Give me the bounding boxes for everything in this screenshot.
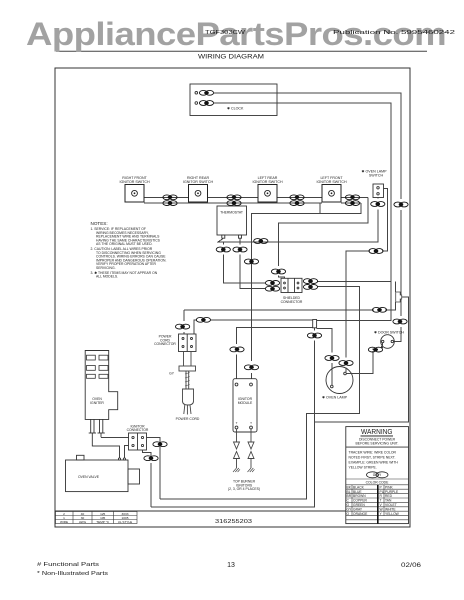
svg-text:IGNITOR SWITCH: IGNITOR SWITCH bbox=[316, 180, 346, 184]
svg-text:NOTED FIRST, STRIPE NEXT.: NOTED FIRST, STRIPE NEXT. bbox=[349, 456, 396, 460]
svg-text:CONNECTOR: CONNECTOR bbox=[154, 342, 176, 346]
svg-text:BROWN: BROWN bbox=[353, 494, 366, 498]
svg-text:COPPER: COPPER bbox=[353, 499, 368, 503]
svg-text:TGF303CW: TGF303CW bbox=[205, 30, 246, 36]
svg-text:PINK: PINK bbox=[385, 485, 393, 489]
svg-text:PURPLE: PURPLE bbox=[385, 490, 399, 494]
svg-text:UL STYLE: UL STYLE bbox=[118, 520, 133, 524]
svg-text:316255203: 316255203 bbox=[215, 519, 252, 525]
svg-text:BLUE: BLUE bbox=[353, 490, 362, 494]
svg-text:GRAY: GRAY bbox=[353, 507, 363, 511]
svg-text:# Functional Parts: # Functional Parts bbox=[37, 562, 99, 568]
svg-text:* Non-Illustrated Parts: * Non-Illustrated Parts bbox=[37, 571, 108, 577]
svg-text:YELLOW: YELLOW bbox=[385, 512, 400, 516]
svg-text:BR: BR bbox=[347, 494, 352, 498]
svg-text:RED: RED bbox=[385, 494, 393, 498]
svg-text:POWER CORD: POWER CORD bbox=[176, 417, 200, 421]
svg-text:WHITE: WHITE bbox=[385, 507, 396, 511]
svg-text:(2, 3, OR 4 PLACES): (2, 3, OR 4 PLACES) bbox=[228, 487, 260, 491]
svg-text:VIOLET: VIOLET bbox=[385, 503, 397, 507]
svg-text:T: T bbox=[236, 421, 238, 425]
svg-text:GREEN: GREEN bbox=[353, 503, 365, 507]
svg-text:SWITCH: SWITCH bbox=[369, 174, 384, 178]
svg-text:WIRE: WIRE bbox=[60, 520, 68, 524]
svg-text:IGNITER: IGNITER bbox=[90, 401, 104, 405]
svg-text:BEFORE SERVICING UNIT.: BEFORE SERVICING UNIT. bbox=[356, 441, 399, 445]
svg-text:✱ DOOR SWITCH: ✱ DOOR SWITCH bbox=[374, 331, 404, 335]
svg-text:TRACER WIRE: WIRE COLOR: TRACER WIRE: WIRE COLOR bbox=[349, 451, 397, 455]
svg-text:IGNITOR SWITCH: IGNITOR SWITCH bbox=[252, 180, 282, 184]
svg-text:ALL MODELS.: ALL MODELS. bbox=[96, 275, 118, 279]
svg-text:GR-Y: GR-Y bbox=[373, 473, 382, 477]
svg-text:WARNING: WARNING bbox=[361, 427, 393, 436]
svg-text:T: T bbox=[380, 499, 382, 503]
svg-text:OVEN VALVE: OVEN VALVE bbox=[78, 475, 100, 479]
svg-text:GY: GY bbox=[169, 372, 175, 376]
svg-text:NOTES:: NOTES: bbox=[91, 221, 108, 226]
svg-text:✱ CLOCK: ✱ CLOCK bbox=[227, 107, 244, 111]
svg-text:T: T bbox=[250, 421, 252, 425]
svg-text:ORANGE: ORANGE bbox=[353, 512, 368, 516]
svg-text:CONNECTOR: CONNECTOR bbox=[281, 300, 303, 304]
svg-text:BL: BL bbox=[347, 490, 351, 494]
svg-text:WIRING DIAGRAM: WIRING DIAGRAM bbox=[198, 54, 264, 61]
svg-text:TAN: TAN bbox=[385, 499, 392, 503]
svg-text:G: G bbox=[347, 503, 350, 507]
svg-text:TEMP °C: TEMP °C bbox=[96, 520, 110, 524]
svg-text:Publication No. 5995460242: Publication No. 5995460242 bbox=[333, 30, 455, 36]
svg-text:CONNECTOR: CONNECTOR bbox=[127, 428, 149, 432]
svg-text:BLACK: BLACK bbox=[353, 485, 365, 489]
svg-text:IGNITOR SWITCH: IGNITOR SWITCH bbox=[183, 180, 213, 184]
svg-text:IGNITOR SWITCH: IGNITOR SWITCH bbox=[119, 180, 149, 184]
svg-text:MODULE: MODULE bbox=[238, 401, 253, 405]
svg-text:AWG: AWG bbox=[79, 520, 87, 524]
svg-text:COLOR CODE: COLOR CODE bbox=[366, 481, 390, 485]
svg-text:SERVICING.: SERVICING. bbox=[96, 266, 116, 270]
svg-text:THERMOSTAT: THERMOSTAT bbox=[220, 211, 243, 215]
svg-text:YELLOW STRIPE.: YELLOW STRIPE. bbox=[349, 465, 377, 469]
svg-text:PU: PU bbox=[380, 490, 385, 494]
svg-text:02/06: 02/06 bbox=[401, 562, 422, 569]
svg-text:✱ OVEN LAMP: ✱ OVEN LAMP bbox=[322, 396, 348, 400]
svg-text:O: O bbox=[347, 512, 350, 516]
svg-text:13: 13 bbox=[227, 562, 235, 569]
svg-text:AS THE ORIGINAL MUST BE USED.: AS THE ORIGINAL MUST BE USED. bbox=[96, 242, 153, 246]
svg-text:EXAMPLE: GREEN WIRE WITH: EXAMPLE: GREEN WIRE WITH bbox=[349, 461, 399, 465]
svg-text:GY: GY bbox=[347, 507, 353, 511]
